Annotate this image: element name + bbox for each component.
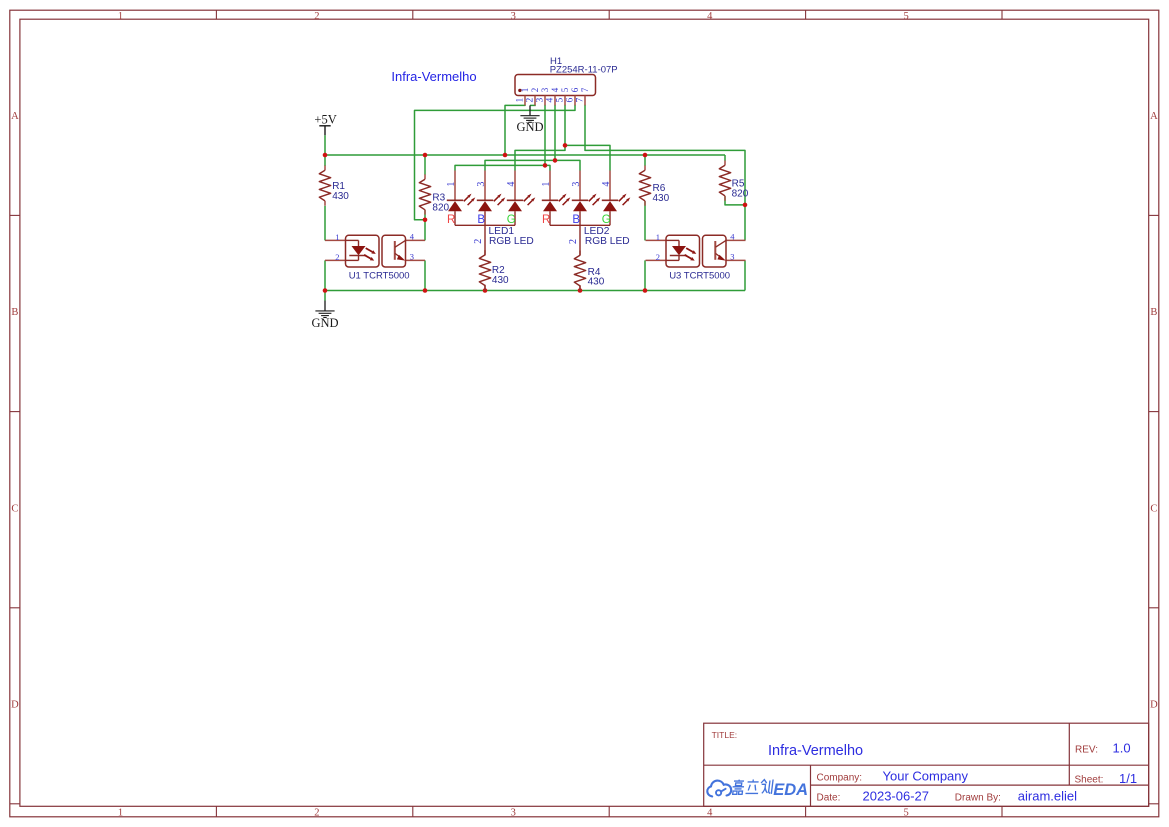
svg-text:Drawn By:: Drawn By: [955,792,1001,803]
wire net pin6 -> R3 / U1 pin4 [415,105,576,220]
U3 phototransistor box [703,235,727,267]
svg-text:1: 1 [335,232,339,242]
svg-text:3: 3 [730,252,734,262]
svg-text:PZ254R-11-07P: PZ254R-11-07P [550,65,618,76]
svg-text:C: C [1150,503,1157,514]
wire junction at (325,155) [323,153,328,158]
svg-text:3: 3 [571,182,582,187]
wire junction at (745,204.9) [743,203,748,208]
svg-text:2023-06-27: 2023-06-27 [863,789,930,804]
svg-text:B: B [572,214,580,226]
ground GND (under header) [516,105,543,134]
wire H1 pin2 to GND jog [530,104,536,107]
wire net pin5 -> LED1 G / LED2 G [515,105,610,171]
svg-text:430: 430 [332,191,349,202]
wire junction at (425,155) [423,153,428,158]
svg-text:2: 2 [335,252,339,262]
svg-text:R: R [447,214,455,226]
optical sensor U1 TCRT5000 [325,232,425,282]
wire junction at (485,290.5) [483,288,488,293]
svg-text:Company:: Company: [817,772,863,783]
svg-text:2: 2 [526,98,536,103]
svg-text:2: 2 [473,239,484,244]
svg-text:430: 430 [492,275,509,286]
wire junction at (325,290.5) [323,288,328,293]
title block [704,723,1149,806]
RGB LED element R, pin lead at x=550 [542,171,571,226]
EDA logo (cloud + CJK + EDA) [707,780,808,800]
svg-text:3: 3 [540,87,550,92]
svg-text:3: 3 [511,808,516,819]
wire junction at (580,290.5) [578,288,583,293]
svg-text:Date:: Date: [817,792,841,803]
svg-text:RGB LED: RGB LED [489,236,534,247]
svg-text:820: 820 [732,188,749,199]
wire net +5V: rail [325,135,725,166]
U3 pin 4 stub [726,239,746,241]
wire junction at (555,160.4) [553,158,558,163]
svg-text:B: B [1150,307,1157,318]
wire R3 top/bottom [424,155,426,240]
LED1 pin2 lead down to R2 [484,225,486,255]
wire net pin3 -> LED1 R / LED2 R [455,105,550,171]
svg-text:airam.eliel: airam.eliel [1018,789,1077,804]
resistor R6 430 [639,166,669,206]
U3 pin 2 stub [646,259,667,261]
svg-text:4: 4 [506,182,517,187]
svg-text:7: 7 [576,98,586,103]
svg-text:G: G [602,214,611,226]
svg-text:A: A [11,111,19,122]
svg-text:1: 1 [446,182,457,187]
svg-text:5: 5 [903,11,908,22]
svg-text:1: 1 [656,232,660,242]
wire junction at (545,165.4) [543,163,548,168]
wire R6 top/bottom to U3 pin1 [644,155,646,240]
LED LED1 RGB LED [446,171,535,291]
svg-text:2: 2 [314,11,319,22]
svg-text:Your Company: Your Company [883,769,969,784]
U1 pin 4 stub [406,239,426,241]
svg-text:GND: GND [311,316,338,330]
svg-text:REV:: REV: [1075,744,1098,755]
svg-text:B: B [11,307,18,318]
H1 pin 5 stub [564,96,566,106]
svg-text:EDA: EDA [773,781,808,799]
resistor R4 430 [574,251,604,291]
wire net pin7 to R5 bottom and U3 pin4 [585,105,745,241]
resistor R2 430 [479,250,509,290]
svg-text:820: 820 [432,202,449,213]
svg-text:+5V: +5V [314,112,336,126]
svg-text:4: 4 [601,182,612,187]
svg-text:Infra-Vermelho: Infra-Vermelho [768,743,863,759]
svg-text:6: 6 [566,98,576,103]
svg-text:430: 430 [588,277,605,288]
svg-text:D: D [1150,700,1158,711]
svg-text:1: 1 [118,808,123,819]
svg-text:G: G [507,214,516,226]
svg-text:4: 4 [550,87,560,92]
svg-text:1: 1 [541,182,552,187]
svg-text:3: 3 [511,11,516,22]
svg-text:4: 4 [707,808,713,819]
svg-text:1: 1 [118,11,123,22]
H1 pin 3 stub [544,96,546,106]
U3 LED box [666,235,700,267]
wire H1 pin1 to +5V rail [505,105,525,155]
svg-text:RGB LED: RGB LED [585,236,630,247]
resistor R5 820 [719,161,748,201]
svg-text:4: 4 [546,98,556,103]
wire net pin4 -> LED1 B / LED2 B [485,105,580,171]
H1 pin 2 stub [534,96,536,106]
RGB LED element G, pin lead at x=515 [507,171,536,226]
svg-text:U1 TCRT5000: U1 TCRT5000 [349,270,410,281]
svg-text:Sheet:: Sheet: [1075,775,1104,786]
H1 pin 6 stub [574,96,576,106]
resistor R1 430 [319,166,349,206]
svg-text:5: 5 [556,98,566,103]
svg-text:Infra-Vermelho: Infra-Vermelho [391,69,476,84]
svg-text:R: R [542,214,550,226]
svg-text:5: 5 [903,808,908,819]
svg-text:2: 2 [656,252,660,262]
svg-text:D: D [11,700,19,711]
svg-text:6: 6 [570,87,580,92]
wire GND bottom rail [325,260,745,300]
svg-text:1/1: 1/1 [1119,771,1137,786]
H1 pin 4 stub [554,96,556,106]
svg-text:B: B [477,214,485,226]
RGB LED element B, pin lead at x=580 [572,171,601,226]
svg-text:C: C [11,503,18,514]
svg-text:2: 2 [530,88,540,93]
svg-text:3: 3 [476,182,487,187]
resistor R3 820 [419,174,449,214]
svg-text:1: 1 [520,88,530,93]
svg-text:1.0: 1.0 [1113,741,1131,756]
svg-text:GND: GND [516,120,543,134]
svg-text:5: 5 [560,87,570,92]
U1 LED box [346,235,380,267]
connector H1 PZ254R-11-07P [515,56,618,105]
svg-text:4: 4 [707,11,713,22]
RGB LED element G, pin lead at x=610 [602,171,631,226]
svg-text:430: 430 [653,193,670,204]
U1 pin 2 stub [325,259,346,261]
U3 pin 1 stub [646,239,667,241]
wire junction at (645,155) [643,153,648,158]
svg-text:2: 2 [314,808,319,819]
wire junction at (565,145.4) [563,143,568,148]
svg-text:U3 TCRT5000: U3 TCRT5000 [669,270,730,281]
svg-text:2: 2 [568,239,579,244]
H1 pin 7 stub [584,96,586,106]
LED LED2 RGB LED [541,171,630,291]
wire R1 bottom to U1 pin1 [324,206,326,241]
LED1 common line [455,224,515,226]
wire junction at (425,290.5) [423,288,428,293]
wire junction at (505,155) [503,153,508,158]
svg-text:A: A [1150,111,1158,122]
U1 pin 1 stub [325,239,346,241]
svg-text:1: 1 [516,98,526,103]
wire junction at (645,290.5) [643,288,648,293]
schematic title text [391,69,476,84]
U3 pin 3 stub [726,259,746,261]
svg-text:3: 3 [410,252,414,262]
svg-text:4: 4 [410,232,415,242]
LED2 common line [550,224,610,226]
svg-text:3: 3 [536,98,546,103]
RGB LED element R, pin lead at x=455 [447,171,476,226]
RGB LED element B, pin lead at x=485 [477,171,506,226]
svg-text:7: 7 [580,87,590,92]
U1 pin 3 stub [406,259,426,261]
+5V power symbol [314,112,336,135]
U1 phototransistor box [382,235,406,267]
LED2 pin2 lead down to R4 [579,225,581,255]
wire junction at (425,219.8) [423,218,428,223]
svg-text:TITLE:: TITLE: [712,730,738,740]
svg-text:4: 4 [730,232,735,242]
H1 pin 1 stub [524,96,526,106]
optical sensor U3 TCRT5000 [646,232,746,282]
ground GND (left) [311,301,338,330]
